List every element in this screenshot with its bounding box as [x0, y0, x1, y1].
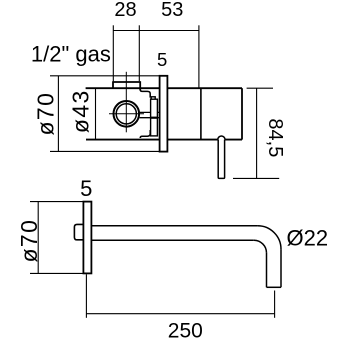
- dimension line 28+53: [113, 30, 199, 32]
- spindle bottom line: [140, 117, 160, 119]
- spout tube bottom line: [91, 239, 253, 241]
- svg-text:250: 250: [168, 319, 203, 340]
- supply stub behind wall: [74, 224, 84, 239]
- housing step bottom: [140, 130, 150, 138]
- spout outlet right edge: [280, 249, 282, 287]
- inlet centerline vertical: [125, 72, 127, 133]
- svg-text:Ø22: Ø22: [287, 226, 329, 251]
- svg-text:ø70: ø70: [16, 219, 42, 263]
- inlet port inner circle: [116, 104, 136, 124]
- dimension o70 bottom extension line: [50, 150, 160, 152]
- handle lever bar: [218, 140, 224, 179]
- svg-text:53: 53: [161, 0, 183, 21]
- spout outlet end: [267, 286, 282, 288]
- inlet crosshair horizontal: [113, 113, 140, 115]
- cartridge housing top: [113, 81, 140, 83]
- dimension 250 line: [86, 313, 274, 315]
- valve body right end cap: [241, 88, 243, 139]
- dimension o70 line: [57, 76, 59, 152]
- svg-text:5: 5: [80, 176, 92, 201]
- extension line at x=199: [198, 25, 200, 88]
- valve body cylinder o43 bottom line: [86, 139, 160, 141]
- valve body cylinder o43 top line: [86, 87, 160, 89]
- dimension 84,5 bottom extension line: [233, 177, 279, 179]
- valve body division line: [200, 88, 202, 139]
- handle boss dome: [218, 136, 225, 140]
- svg-text:5: 5: [157, 49, 167, 70]
- inlet port outer circle (1/2" gas): [114, 101, 140, 127]
- svg-text:84,5: 84,5: [264, 118, 286, 157]
- spout outlet left edge: [266, 253, 268, 287]
- svg-text:28: 28: [114, 0, 136, 21]
- inlet crosshair vertical: [125, 101, 127, 128]
- extension line at x=139: [138, 25, 140, 81]
- dimension o43 line: [95, 88, 97, 139]
- dimension 84,5 line: [256, 88, 258, 178]
- housing step top: [140, 90, 150, 98]
- svg-text:ø70: ø70: [32, 92, 58, 136]
- extension line at x=113: [112, 25, 114, 81]
- inlet centerline horizontal: [109, 113, 144, 115]
- dimension o70 bottom extension line (bottom figure): [30, 272, 83, 274]
- spindle top line: [140, 111, 160, 113]
- spout bend inner: [254, 240, 267, 253]
- dimension 84,5 top extension line: [247, 87, 273, 89]
- spout bend outer: [258, 226, 281, 249]
- dimension o70 top extension line (bottom figure): [30, 201, 83, 203]
- dimension 250 right extension line: [274, 291, 276, 318]
- wall plate (top figure): [160, 76, 168, 152]
- svg-text:1/2" gas: 1/2" gas: [31, 42, 111, 67]
- wall plate (bottom figure): [83, 202, 91, 274]
- mounting nut lower: [151, 118, 158, 136]
- dimension 250 left extension line: [85, 274, 87, 318]
- mounting flange: [151, 97, 155, 131]
- spout tube top line: [91, 225, 257, 227]
- mounting nut upper: [151, 99, 158, 117]
- dimension o70 top extension line: [50, 75, 160, 77]
- dimension o70 line (bottom figure): [37, 202, 39, 274]
- svg-text:ø43: ø43: [68, 89, 94, 133]
